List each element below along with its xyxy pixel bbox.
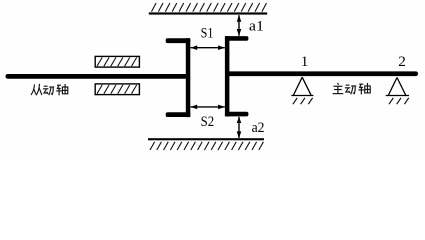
right coupling flange xyxy=(225,36,249,116)
label driving-shaft (zhu dong zhou) xyxy=(333,83,371,95)
svg-text:a2: a2 xyxy=(252,119,265,136)
support 1 ground hatching xyxy=(293,98,313,104)
driven shaft (left) xyxy=(6,74,190,79)
label a2 xyxy=(252,119,265,136)
bottom wall hatching xyxy=(150,142,263,150)
svg-text:S2: S2 xyxy=(201,113,215,130)
svg-text:a1: a1 xyxy=(249,18,264,35)
label 1 xyxy=(301,53,309,70)
driving shaft (right) xyxy=(226,71,418,76)
svg-text:2: 2 xyxy=(398,53,406,70)
dimension S2 arrows xyxy=(190,105,225,110)
bearing block upper (hatched) xyxy=(95,56,139,67)
bearing block lower (hatched) xyxy=(95,84,139,95)
top wall hatching xyxy=(152,3,267,12)
support 1 triangle xyxy=(291,77,313,95)
label 2 xyxy=(398,53,406,70)
dimension S1 arrows xyxy=(190,45,225,50)
left coupling flange xyxy=(166,38,191,117)
top fixed wall line xyxy=(149,12,267,14)
svg-text:1: 1 xyxy=(301,53,309,70)
bottom fixed wall line xyxy=(148,138,264,140)
svg-text:S1: S1 xyxy=(201,24,214,41)
label S1 xyxy=(201,24,214,41)
dimension a2 arrows xyxy=(237,117,242,139)
label a1 xyxy=(249,18,264,35)
dimension a1 arrows xyxy=(237,15,242,36)
label driven-shaft (cong dong zhou) xyxy=(31,84,68,95)
support 2 ground hatching xyxy=(389,98,409,104)
support 2 triangle xyxy=(386,78,409,96)
label S2 xyxy=(201,113,215,130)
